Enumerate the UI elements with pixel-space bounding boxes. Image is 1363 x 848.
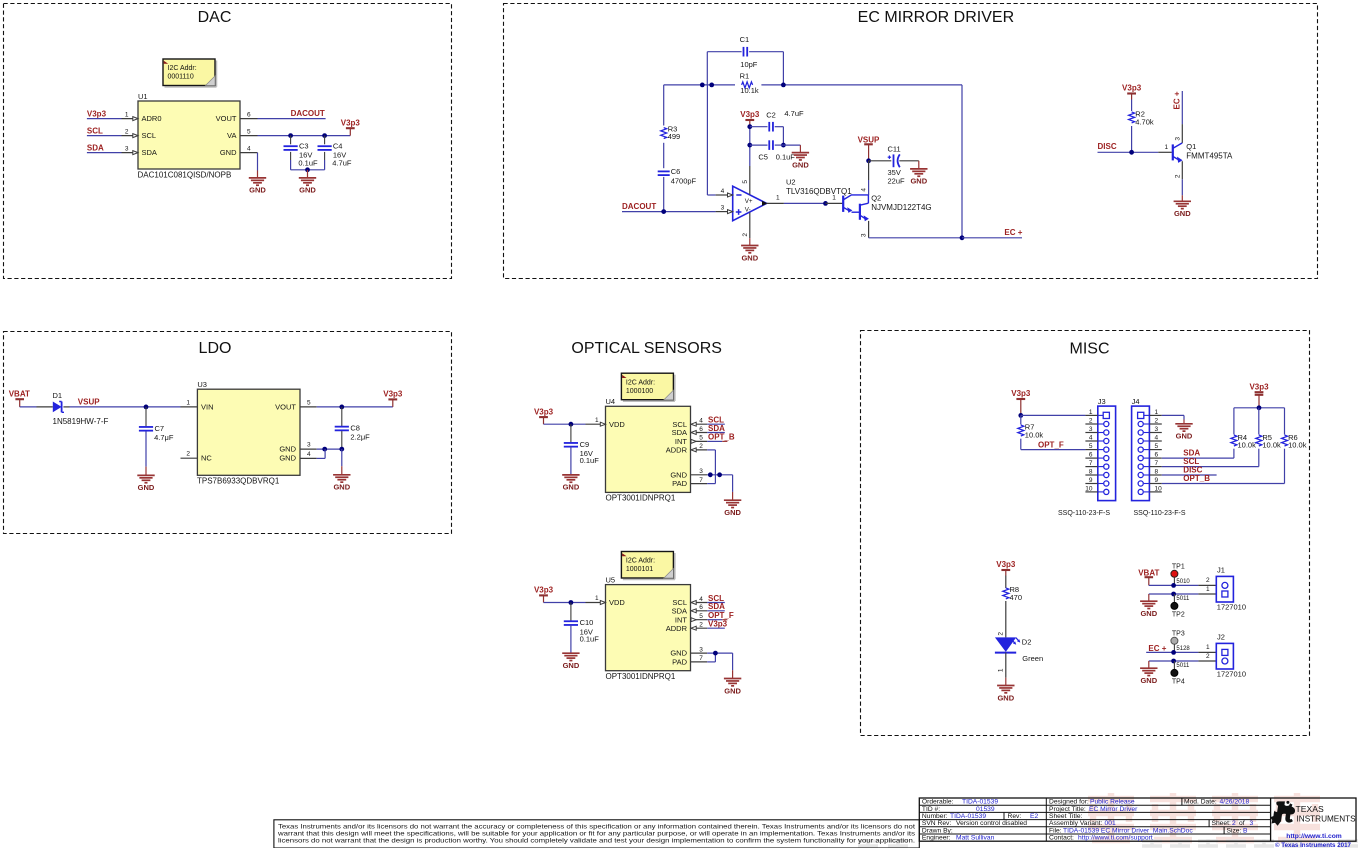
svg-text:J4: J4 xyxy=(1132,397,1140,406)
svg-text:Sheet Title:: Sheet Title: xyxy=(1049,813,1083,820)
U3 pin 2 xyxy=(181,457,198,459)
wire SDA stub (U4) xyxy=(707,432,725,434)
svg-text:V3p3: V3p3 xyxy=(1122,84,1142,93)
svg-text:1: 1 xyxy=(1165,144,1169,151)
svg-text:ADDR: ADDR xyxy=(666,446,688,455)
Q2 emitter pin 3 xyxy=(868,221,870,238)
svg-text:V+: V+ xyxy=(745,198,753,205)
J4 pin 4 xyxy=(1149,440,1161,442)
svg-text:10: 10 xyxy=(1155,485,1163,492)
J4 pin 5 xyxy=(1149,449,1161,451)
J4 pin 2 xyxy=(1149,423,1161,425)
svg-text:Engineer:: Engineer: xyxy=(922,835,951,842)
svg-text:V3p3: V3p3 xyxy=(708,620,728,629)
wire ground row to J2 xyxy=(1149,660,1199,662)
svg-text:8: 8 xyxy=(1155,468,1159,475)
J4 pin 7 xyxy=(1149,466,1161,468)
junction dots on R1 row xyxy=(700,83,705,88)
J4 pin 9 xyxy=(1149,483,1161,485)
wire C1 right leg xyxy=(782,52,784,85)
note I2C Addr 1000100 xyxy=(674,375,676,401)
svg-text:Number:: Number: xyxy=(922,813,948,820)
svg-text:1: 1 xyxy=(998,668,1005,672)
svg-text:PAD: PAD xyxy=(672,658,687,667)
svg-text:EC +: EC + xyxy=(1004,228,1022,237)
svg-text:Version control disabled: Version control disabled xyxy=(956,820,1027,827)
note I2C Addr 1000101 xyxy=(674,553,676,579)
J1 pin bottom xyxy=(1198,593,1216,595)
svg-text:DAC101C081QISD/NOPB: DAC101C081QISD/NOPB xyxy=(138,171,232,180)
svg-text:1: 1 xyxy=(186,399,190,406)
J4 pin 8 xyxy=(1149,474,1161,476)
svg-text:GND: GND xyxy=(563,483,580,492)
svg-text:5: 5 xyxy=(1089,443,1093,450)
svg-text:J3: J3 xyxy=(1098,397,1106,406)
svg-text:TEXAS: TEXAS xyxy=(1296,804,1324,814)
svg-text:3: 3 xyxy=(721,205,725,212)
U5 pin 2 ADDR xyxy=(691,627,708,629)
U2 minus plus marks xyxy=(736,194,741,196)
svg-text:4: 4 xyxy=(1089,434,1093,441)
U1 pin 4 xyxy=(240,152,258,154)
power V3p3 (U4) xyxy=(539,416,548,418)
svg-text:U2: U2 xyxy=(786,177,796,186)
svg-text:1727010: 1727010 xyxy=(1217,669,1246,678)
wire J4 pin1 to ground xyxy=(1162,414,1184,416)
svg-text:5011: 5011 xyxy=(1176,596,1190,602)
power V3p3 (R7) xyxy=(1016,398,1025,400)
J4 pin 6 xyxy=(1149,457,1161,459)
svg-text:10pF: 10pF xyxy=(740,60,758,69)
U5 pin 4 SCL xyxy=(691,602,708,604)
svg-text:SDA: SDA xyxy=(142,148,157,157)
U4 pin 4 SCL xyxy=(691,423,708,425)
svg-text:VOUT: VOUT xyxy=(216,114,237,123)
J4 pin 10 xyxy=(1149,491,1161,493)
resistor R4 xyxy=(1233,408,1235,435)
wire C8 to ground xyxy=(341,449,343,466)
DAC block border xyxy=(4,4,452,279)
svg-text:Contact:: Contact: xyxy=(1049,835,1074,842)
svg-text:ADR0: ADR0 xyxy=(142,114,162,123)
svg-text:VDD: VDD xyxy=(609,420,625,429)
wire EC+ vertical xyxy=(1181,91,1183,124)
svg-text:C8: C8 xyxy=(350,424,360,433)
U4 pin 5 INT xyxy=(691,440,708,442)
svg-text:MISC: MISC xyxy=(1070,340,1110,357)
IC U3 body xyxy=(197,389,300,475)
svg-text:U3: U3 xyxy=(197,380,207,389)
svg-text:V3p3: V3p3 xyxy=(87,109,107,118)
ground (U1 pin4) xyxy=(249,177,266,179)
wire V3p3 to C2 C5 junction xyxy=(749,127,751,145)
J3 pin 4 xyxy=(1085,440,1097,442)
power V3p3 (pullups) xyxy=(1255,391,1264,393)
wire SCL to pin2 xyxy=(87,135,122,137)
svg-text:4/26/2018: 4/26/2018 xyxy=(1220,799,1250,806)
svg-text:U4: U4 xyxy=(606,397,616,406)
wire ground row to J1 xyxy=(1149,593,1199,595)
ground (D2) xyxy=(997,685,1014,687)
svg-text:Sheet:: Sheet: xyxy=(1212,820,1231,827)
svg-text:SDA: SDA xyxy=(708,602,725,611)
power V3p3 (U5) xyxy=(539,594,548,596)
svg-text:NJVMJD122T4G: NJVMJD122T4G xyxy=(871,203,931,212)
transistor Q1 xyxy=(1172,144,1174,160)
svg-text:C5: C5 xyxy=(758,152,768,161)
svg-text:C9: C9 xyxy=(580,440,590,449)
U3 pin 4 xyxy=(300,457,317,459)
svg-text:2.2μF: 2.2μF xyxy=(350,433,370,442)
svg-text:1: 1 xyxy=(1155,409,1159,416)
svg-text:GND: GND xyxy=(299,186,316,195)
svg-text:LDO: LDO xyxy=(199,340,232,357)
svg-text:4: 4 xyxy=(861,188,868,192)
svg-text:E2: E2 xyxy=(1030,813,1038,820)
svg-text:VBAT: VBAT xyxy=(9,390,30,399)
svg-text:SCL: SCL xyxy=(87,126,103,135)
svg-text:C4: C4 xyxy=(333,142,343,151)
svg-text:C7: C7 xyxy=(155,424,165,433)
svg-text:2: 2 xyxy=(1155,417,1159,424)
Q1 collector pin 3 xyxy=(1181,124,1183,143)
connector J3 body xyxy=(1098,406,1116,501)
U1 pin 6 xyxy=(240,118,258,120)
wire SCL stub (U4) xyxy=(707,423,725,425)
svg-text:GND: GND xyxy=(279,444,296,453)
connector J1 body xyxy=(1216,576,1233,602)
svg-text:of: of xyxy=(1239,820,1245,827)
svg-text:C3: C3 xyxy=(299,142,309,151)
svg-text:2: 2 xyxy=(1174,174,1181,178)
U2 input pin 4 xyxy=(716,194,728,196)
EC MIRROR DRIVER block border xyxy=(504,4,1318,279)
svg-text:4: 4 xyxy=(307,451,311,458)
ground (C8) xyxy=(333,474,350,476)
svg-text:SVN Rev:: SVN Rev: xyxy=(922,820,952,827)
J3 pin 3 xyxy=(1085,432,1097,434)
svg-text:0001110: 0001110 xyxy=(168,74,194,81)
svg-text:C10: C10 xyxy=(580,618,594,627)
svg-text:GND: GND xyxy=(279,454,296,463)
ground (C3 C4) xyxy=(299,177,316,179)
svg-text:3: 3 xyxy=(699,646,703,653)
svg-text:VDD: VDD xyxy=(609,598,625,607)
wire SDA stub (U5) xyxy=(707,610,725,612)
capacitor C6 xyxy=(658,170,670,172)
svg-text:EC MIRROR DRIVER: EC MIRROR DRIVER xyxy=(858,9,1014,26)
svg-text:V3p3: V3p3 xyxy=(1249,382,1269,391)
svg-text:SSQ-110-23-F-S: SSQ-110-23-F-S xyxy=(1058,510,1110,517)
ground (C2 C5) xyxy=(792,152,809,154)
connector J4 body xyxy=(1132,406,1150,501)
svg-text:V3p3: V3p3 xyxy=(341,118,361,127)
wire DACOUT to op-amp pin3 xyxy=(622,211,716,213)
watermark xyxy=(1088,793,1320,843)
diode D1 xyxy=(53,402,62,413)
svg-text:6: 6 xyxy=(699,426,703,433)
svg-text:Matt Sullivan: Matt Sullivan xyxy=(956,835,995,842)
svg-text:10: 10 xyxy=(1085,485,1093,492)
wire D2 to ground xyxy=(1005,653,1007,678)
svg-text:J2: J2 xyxy=(1217,633,1225,642)
wire VOUT to DACOUT xyxy=(258,118,326,120)
svg-text:2: 2 xyxy=(699,443,703,450)
svg-text:VBAT: VBAT xyxy=(1138,568,1159,577)
U3 pin 3 xyxy=(300,448,317,450)
svg-text:470: 470 xyxy=(1010,593,1023,602)
svg-text:Texas Instruments and/or its l: Texas Instruments and/or its licensors d… xyxy=(278,824,915,830)
capacitor C4 xyxy=(324,136,326,145)
wire SCL J4 to R5 xyxy=(1162,466,1259,468)
svg-text:3: 3 xyxy=(307,442,311,449)
title block frame xyxy=(919,798,1356,841)
wire C1 left leg xyxy=(706,52,708,85)
J3 pin 6 xyxy=(1085,457,1097,459)
wire DISC stub (J4) xyxy=(1162,474,1217,476)
svg-text:5010: 5010 xyxy=(1176,579,1190,585)
svg-text:4.7uF: 4.7uF xyxy=(332,158,352,167)
wire feedback right leg xyxy=(961,85,963,238)
svg-text:Mod. Date:: Mod. Date: xyxy=(1184,799,1217,806)
svg-text:J1: J1 xyxy=(1217,566,1225,575)
svg-text:GND: GND xyxy=(724,508,741,517)
svg-text:© Texas Instruments 2017: © Texas Instruments 2017 xyxy=(1275,842,1352,848)
svg-text:Drawn By:: Drawn By: xyxy=(922,827,953,834)
svg-text:SDA: SDA xyxy=(87,143,104,152)
U1 pin 2 xyxy=(122,135,139,137)
ground (C11) xyxy=(918,161,920,169)
wire V3p3 to VDD (U5) xyxy=(544,602,586,604)
svg-text:7: 7 xyxy=(699,655,703,662)
svg-text:2: 2 xyxy=(1206,653,1210,660)
wire V3p3 to pin1 xyxy=(87,118,122,120)
capacitor C8 xyxy=(341,407,343,426)
svg-text:1: 1 xyxy=(1206,644,1210,651)
wire GND PAD tie (U4) xyxy=(707,474,732,476)
svg-text:DISC: DISC xyxy=(1098,142,1117,151)
U2 input pin 3 xyxy=(716,211,728,213)
svg-text:SDA: SDA xyxy=(672,606,687,615)
Q2 collector pin 4 xyxy=(868,161,870,180)
svg-text:Designed for:: Designed for: xyxy=(1049,799,1089,806)
svg-text:3: 3 xyxy=(1089,426,1093,433)
svg-text:3: 3 xyxy=(699,468,703,475)
wire V3p3 to J3 pin1 xyxy=(1021,414,1086,416)
power VBAT (J1) xyxy=(1145,576,1154,578)
svg-text:File:: File: xyxy=(1049,827,1062,834)
svg-text:Orderable:: Orderable: xyxy=(922,799,954,806)
svg-text:GND: GND xyxy=(1174,209,1191,218)
svg-text:Public Release: Public Release xyxy=(1090,799,1135,806)
wire VA net xyxy=(258,135,351,137)
svg-text:GND: GND xyxy=(997,693,1014,702)
svg-text:6: 6 xyxy=(699,604,703,611)
wire pullup rail xyxy=(1234,407,1285,409)
op-amp U2 triangle xyxy=(733,186,767,221)
svg-text:TIDA-01539 EC Mirror Driver_Ma: TIDA-01539 EC Mirror Driver_Main.SchDoc xyxy=(1063,827,1193,834)
svg-text:U1: U1 xyxy=(138,92,148,101)
wire to ground (U4 pad) xyxy=(732,475,734,492)
svg-text:1: 1 xyxy=(125,111,129,118)
svg-text:D1: D1 xyxy=(53,391,63,400)
ground (U5 pad) xyxy=(724,678,741,680)
IC U4 body xyxy=(606,406,691,492)
U5 pin 1 VDD xyxy=(586,602,606,604)
svg-text:GND: GND xyxy=(910,177,927,186)
wire Q2 emitter to EC+ xyxy=(869,237,962,239)
svg-text:TP2: TP2 xyxy=(1172,612,1185,619)
svg-text:C11: C11 xyxy=(888,144,901,153)
J3 pin 10 xyxy=(1085,491,1097,493)
svg-text:5: 5 xyxy=(247,128,251,135)
capacitor C1 xyxy=(707,51,741,53)
connector J2 body xyxy=(1216,643,1233,669)
svg-text:0.1uF: 0.1uF xyxy=(580,456,600,465)
svg-text:OPT3001IDNPRQ1: OPT3001IDNPRQ1 xyxy=(606,494,676,503)
wire to ground (U5 pad) xyxy=(732,653,734,670)
svg-text:01539: 01539 xyxy=(976,806,995,813)
ground (U4 pad) xyxy=(724,499,741,501)
svg-text:I2C Addr:: I2C Addr: xyxy=(168,65,197,72)
J3 pin 1 xyxy=(1085,414,1097,416)
svg-text:Q1: Q1 xyxy=(1186,142,1196,151)
wire VOUT to V3p3 xyxy=(317,406,393,408)
svg-text:1: 1 xyxy=(776,194,780,201)
svg-text:001: 001 xyxy=(1105,820,1116,827)
ground (C10) xyxy=(570,652,572,655)
svg-text:VSUP: VSUP xyxy=(858,135,880,144)
svg-text:10.0k: 10.0k xyxy=(1025,430,1044,439)
wire DISC to Q1 base xyxy=(1098,151,1159,153)
svg-text:GND: GND xyxy=(792,160,809,169)
U1 pin 3 xyxy=(122,152,139,154)
svg-text:GND: GND xyxy=(1140,609,1157,618)
wire OPT_B stub (U4) xyxy=(707,440,722,442)
wire C3-C4 to ground xyxy=(291,169,325,171)
svg-text:DACOUT: DACOUT xyxy=(291,109,325,118)
svg-text:7: 7 xyxy=(1089,460,1093,467)
svg-text:5: 5 xyxy=(699,435,703,442)
svg-text:OPT_F: OPT_F xyxy=(1038,440,1064,449)
svg-text:5: 5 xyxy=(1155,443,1159,450)
U5 pin 3 GND xyxy=(691,652,708,654)
svg-text:http://www.ti.com/support: http://www.ti.com/support xyxy=(1078,835,1153,842)
svg-text:TP1: TP1 xyxy=(1172,564,1185,571)
J1 pin top xyxy=(1198,584,1216,586)
svg-text:499: 499 xyxy=(668,132,681,141)
svg-text:2: 2 xyxy=(1232,820,1236,827)
svg-text:VIN: VIN xyxy=(201,402,214,411)
svg-text:VSUP: VSUP xyxy=(78,398,100,407)
svg-text:3: 3 xyxy=(1155,426,1159,433)
disclaimer box xyxy=(274,820,919,848)
svg-text:10.0k: 10.0k xyxy=(1238,440,1257,449)
wire D1 to VIN xyxy=(63,406,69,408)
svg-text:2: 2 xyxy=(186,451,190,458)
svg-text:FMMT495TA: FMMT495TA xyxy=(1186,151,1233,160)
wire OPT_F stub (U5) xyxy=(707,619,722,621)
title block subdividers xyxy=(1181,798,1183,805)
svg-text:3: 3 xyxy=(1174,137,1181,141)
J3 pin 8 xyxy=(1085,474,1097,476)
svg-text:SSQ-110-23-F-S: SSQ-110-23-F-S xyxy=(1134,510,1186,517)
svg-text:Assembly Variant:: Assembly Variant: xyxy=(1049,820,1103,827)
J3 pin 9 xyxy=(1085,483,1097,485)
svg-text:1: 1 xyxy=(595,417,599,424)
U2 pin 2 xyxy=(749,212,751,238)
J2 pin bottom xyxy=(1198,660,1216,662)
wire V3p3 to VDD (U4) xyxy=(544,423,586,425)
svg-text:4.7uF: 4.7uF xyxy=(784,109,804,118)
svg-text:GND: GND xyxy=(741,253,758,262)
TI logo xyxy=(1270,801,1295,826)
ground (Q1) xyxy=(1174,200,1191,202)
svg-text:VA: VA xyxy=(227,131,236,140)
svg-text:4.7μF: 4.7μF xyxy=(154,433,174,442)
svg-text:1: 1 xyxy=(1089,409,1093,416)
Q1 emitter pin 2 xyxy=(1181,161,1183,179)
svg-text:NC: NC xyxy=(201,454,212,463)
MISC block border xyxy=(861,331,1310,736)
J3 pin 5 xyxy=(1085,449,1097,451)
J3 pin 2 xyxy=(1085,423,1097,425)
svg-text:INSTRUMENTS: INSTRUMENTS xyxy=(1297,815,1357,824)
ground (J4 pin1) xyxy=(1175,423,1192,425)
svg-text:C6: C6 xyxy=(671,167,681,176)
svg-text:licensors do not warrant that: licensors do not warrant that the design… xyxy=(278,839,915,845)
svg-text:4: 4 xyxy=(699,418,703,425)
svg-text:GND: GND xyxy=(1176,432,1193,441)
svg-text:4: 4 xyxy=(699,596,703,603)
svg-text:GND: GND xyxy=(138,483,155,492)
Q1 base pin 1 xyxy=(1158,151,1172,153)
capacitor C3 xyxy=(290,136,292,145)
capacitor C9 xyxy=(570,424,572,442)
svg-text:GND: GND xyxy=(249,186,266,195)
svg-text:GND: GND xyxy=(563,661,580,670)
svg-text:V3p3: V3p3 xyxy=(534,407,554,416)
svg-text:Size:: Size: xyxy=(1227,827,1242,834)
svg-text:9: 9 xyxy=(1089,477,1093,484)
svg-text:2: 2 xyxy=(998,632,1005,636)
svg-text:TP4: TP4 xyxy=(1172,679,1185,686)
svg-text:OPT3001IDNPRQ1: OPT3001IDNPRQ1 xyxy=(606,672,676,681)
svg-text:5: 5 xyxy=(307,399,311,406)
ground (J2) xyxy=(1148,661,1150,668)
svg-text:3: 3 xyxy=(125,145,129,152)
svg-text:5: 5 xyxy=(699,613,703,620)
svg-text:2: 2 xyxy=(699,622,703,629)
svg-text:Rev:: Rev: xyxy=(1008,813,1022,820)
svg-text:OPT_B: OPT_B xyxy=(708,433,735,442)
U4 pin 6 SDA xyxy=(691,432,708,434)
wire SCL stub (U5) xyxy=(707,602,725,604)
wire U2 out to Q2 base xyxy=(784,202,826,204)
svg-text:PAD: PAD xyxy=(672,479,687,488)
svg-text:TID #:: TID #: xyxy=(922,806,940,813)
svg-text:GND: GND xyxy=(724,686,741,695)
resistor R7 xyxy=(1020,415,1022,424)
svg-text:9: 9 xyxy=(1155,477,1159,484)
svg-text:GND: GND xyxy=(1140,676,1157,685)
wire ADDR to ground net (U4) xyxy=(707,449,715,451)
svg-text:SDA: SDA xyxy=(708,424,725,433)
J4 pin 1 xyxy=(1149,414,1161,416)
svg-text:2: 2 xyxy=(742,233,749,237)
ground (J1) xyxy=(1148,594,1150,601)
svg-text:8: 8 xyxy=(1089,468,1093,475)
